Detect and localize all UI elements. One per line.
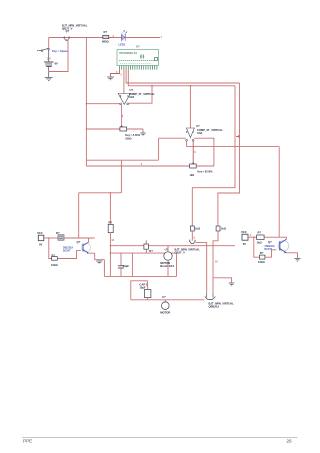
svg-text:U3A: U3A: [197, 131, 202, 135]
wire VCC to LDR1: [44, 237, 58, 239]
motor M2: [160, 295, 170, 314]
svg-text:Key = B 50%: Key = B 50%: [198, 170, 214, 173]
svg-text:R?: R?: [104, 30, 108, 34]
svg-text:R?: R?: [260, 251, 264, 255]
ground IC pin1: [107, 77, 114, 80]
svg-text:R?: R?: [149, 249, 153, 253]
transistor Q2: [63, 240, 91, 254]
wire bus146 right edge down: [278, 147, 280, 238]
ground pot R3: [140, 133, 146, 136]
svg-text:1kΩ: 1kΩ: [190, 174, 195, 177]
node dot base branch: [48, 237, 50, 239]
svg-text:MOTOR: MOTOR: [160, 310, 170, 314]
potentiometer R7 1k Key=B: [86, 163, 213, 178]
wire loop left edge: [131, 253, 133, 276]
wire bus B to comparator U3: [189, 86, 191, 128]
wire U2 left input down to pot R3 wiper: [121, 105, 123, 127]
svg-text:Q?: Q?: [77, 240, 81, 244]
wire busB right column: [192, 86, 235, 226]
sensor CAP-2: [139, 281, 151, 300]
svg-text:U?: U?: [196, 124, 200, 128]
IC U1 PIC16F84A: [117, 45, 159, 66]
wire battery to ground: [48, 67, 50, 77]
wire R4 to Q2 base: [57, 250, 81, 258]
svg-text:10µF: 10µF: [139, 285, 146, 289]
svg-text:5V: 5V: [39, 243, 42, 247]
svg-text:R?: R?: [56, 231, 60, 235]
node dot bus B comp2 feed: [190, 85, 192, 87]
node dot resistor chain: [110, 192, 112, 194]
svg-text:10: 10: [215, 261, 218, 264]
transistor Q3: [265, 239, 289, 253]
wire pin3 to comparator U2: [123, 70, 125, 94]
svg-text:U?: U?: [136, 45, 140, 49]
svg-text:R?: R?: [258, 231, 262, 235]
resistor R8: [216, 226, 227, 231]
svg-text:Brush DC1: Brush DC1: [160, 264, 174, 268]
resistor R2: [102, 30, 109, 43]
wire sensor feed down: [78, 193, 80, 238]
svg-text:BC547: BC547: [265, 248, 273, 251]
svg-text:LED1: LED1: [119, 43, 126, 47]
IC U1 pins 1-18: [120, 66, 157, 70]
wire bus146: [187, 146, 280, 148]
wire VCC2 right: [248, 236, 257, 238]
ground Q3: [295, 259, 301, 262]
resistor R5: [108, 220, 113, 232]
wire sensor feed horizontal: [79, 192, 122, 194]
resistor R9 stub: [144, 240, 153, 253]
svg-text:BC547: BC547: [63, 250, 71, 253]
svg-text:Q?: Q?: [66, 29, 70, 33]
wire comp chain horizontal: [86, 159, 158, 161]
wire pot R3 to ground: [142, 129, 144, 133]
wire base branch down: [49, 238, 52, 259]
svg-text:Q?: Q?: [268, 240, 272, 244]
svg-text:26: 26: [287, 439, 293, 444]
wire Q5 emitter to Q4 column: [196, 243, 207, 294]
wire U3 right input to right column: [194, 138, 214, 166]
resistor R5 chain from node: [109, 193, 111, 225]
wire Q4 column ground tap: [213, 278, 232, 283]
source VCC box right: [241, 230, 248, 246]
wire pot R3 line: [86, 128, 143, 130]
net arrow busB: [236, 135, 240, 137]
resistor R4: [51, 253, 58, 267]
svg-text:10kΩ: 10kΩ: [258, 260, 265, 264]
svg-text:9: 9: [193, 237, 195, 240]
svg-text:1kΩ: 1kΩ: [257, 241, 263, 245]
svg-text:10µF: 10µF: [123, 264, 130, 268]
wire R5 down: [109, 233, 111, 277]
svg-text:PIC16F84A-04: PIC16F84A-04: [120, 51, 138, 55]
svg-text:1kΩ: 1kΩ: [221, 227, 227, 231]
battery V1: [44, 62, 58, 67]
wire busA right column: [218, 83, 240, 226]
svg-text:U?: U?: [130, 88, 134, 92]
wire Q2 emitter to ground rail: [89, 253, 105, 260]
wire left long rail: [85, 38, 87, 167]
resistor R10: [257, 231, 265, 245]
svg-text:1: 1: [161, 36, 163, 39]
wire battery plus to Q1 emitter: [49, 40, 68, 71]
wire left bottom rail down: [103, 260, 105, 277]
svg-text:U?: U?: [162, 295, 166, 299]
svg-text:2: 2: [121, 74, 123, 77]
wire U2 left input from left rail: [86, 103, 119, 105]
svg-text:4: 4: [122, 115, 124, 118]
node dot bus B tap: [151, 85, 153, 87]
svg-text:QRB212: QRB212: [209, 304, 220, 308]
wire pin1 to ground: [111, 70, 120, 77]
ground Q4 tap: [229, 283, 235, 286]
svg-text:5V: 5V: [243, 242, 246, 246]
svg-text:6: 6: [194, 151, 196, 154]
svg-text:680Ω: 680Ω: [102, 39, 109, 43]
IC U1 pin name row: [119, 60, 157, 63]
wire motor1 top rail: [110, 245, 235, 247]
wire R11 to Q3 base: [265, 250, 276, 257]
photo sensor LDR1: [56, 231, 64, 240]
transistor Q5: [175, 240, 201, 255]
potentiometer R3 10k Key=A: [120, 125, 141, 140]
wire comp chain vertical: [158, 138, 160, 160]
footer rule: [22, 436, 298, 438]
svg-text:1kΩ: 1kΩ: [195, 227, 201, 231]
svg-text:10kΩ: 10kΩ: [51, 263, 58, 267]
wire cap rail: [110, 252, 176, 254]
wire Q3 emitter to ground: [286, 253, 297, 258]
wire U3 left input to comp chain: [159, 137, 186, 139]
ground battery: [45, 77, 53, 80]
wire bus B to U2 right input: [129, 86, 152, 103]
ground Q2 emitter: [96, 261, 102, 264]
node dot cap rail: [110, 252, 112, 254]
resistor R6: [190, 226, 201, 231]
wire Q3 collector: [279, 237, 286, 239]
svg-text:VCC: VCC: [37, 231, 43, 235]
LED1: [119, 30, 127, 46]
node dot bus146: [192, 146, 194, 148]
node dot left rail tap1: [86, 103, 88, 105]
wire LDR1 to collector column: [64, 237, 95, 239]
node dot base branch right: [253, 236, 255, 238]
wire pin5 bus B: [128, 70, 235, 86]
resistor R11: [258, 251, 265, 264]
svg-text:VCC: VCC: [241, 230, 247, 234]
wire Q2 collector up: [88, 238, 90, 242]
svg-text:PPE: PPE: [23, 439, 32, 444]
wire base branch right down: [254, 237, 260, 257]
wire loop right edge: [176, 253, 178, 276]
transistor Q1: [62, 24, 88, 41]
wire motor2 left loop: [131, 281, 148, 300]
switch J1 Key=Space: [37, 48, 68, 53]
wire R10 to collector column: [264, 236, 279, 238]
op-amp U3 comparator: [186, 124, 223, 141]
wire switch to battery: [48, 50, 50, 62]
wire U3 right input wiper link: [192, 141, 194, 163]
wire R6 to Q5: [191, 231, 193, 241]
wire switch drop: [48, 38, 50, 49]
svg-text:Key = Space: Key = Space: [52, 49, 68, 53]
transistor Q4: [205, 294, 234, 309]
svg-text:9V: 9V: [55, 62, 58, 66]
svg-text:12V: 12V: [47, 58, 52, 61]
wire U3 left input to bus146: [186, 141, 188, 146]
source VCC box left: [37, 231, 44, 247]
svg-text:12: 12: [111, 239, 114, 242]
op-amp U2 comparator: [118, 88, 155, 105]
capacitor C1: [118, 253, 129, 276]
svg-text:U2A: U2A: [129, 95, 134, 99]
wire motor2 rail: [131, 299, 205, 301]
wire pin4 bus A: [126, 70, 239, 83]
svg-text:10kΩ: 10kΩ: [125, 137, 131, 140]
node dot motor rail: [110, 245, 112, 247]
wire R8 jog down to Q4 column: [213, 231, 218, 294]
wire top bus net 1: [49, 37, 160, 39]
node dot left rail tap2: [86, 128, 88, 130]
svg-text:R?: R?: [109, 220, 113, 224]
wire comp chain down: [120, 160, 122, 193]
motor M1: [160, 246, 174, 277]
wire bottom rail: [104, 275, 176, 277]
